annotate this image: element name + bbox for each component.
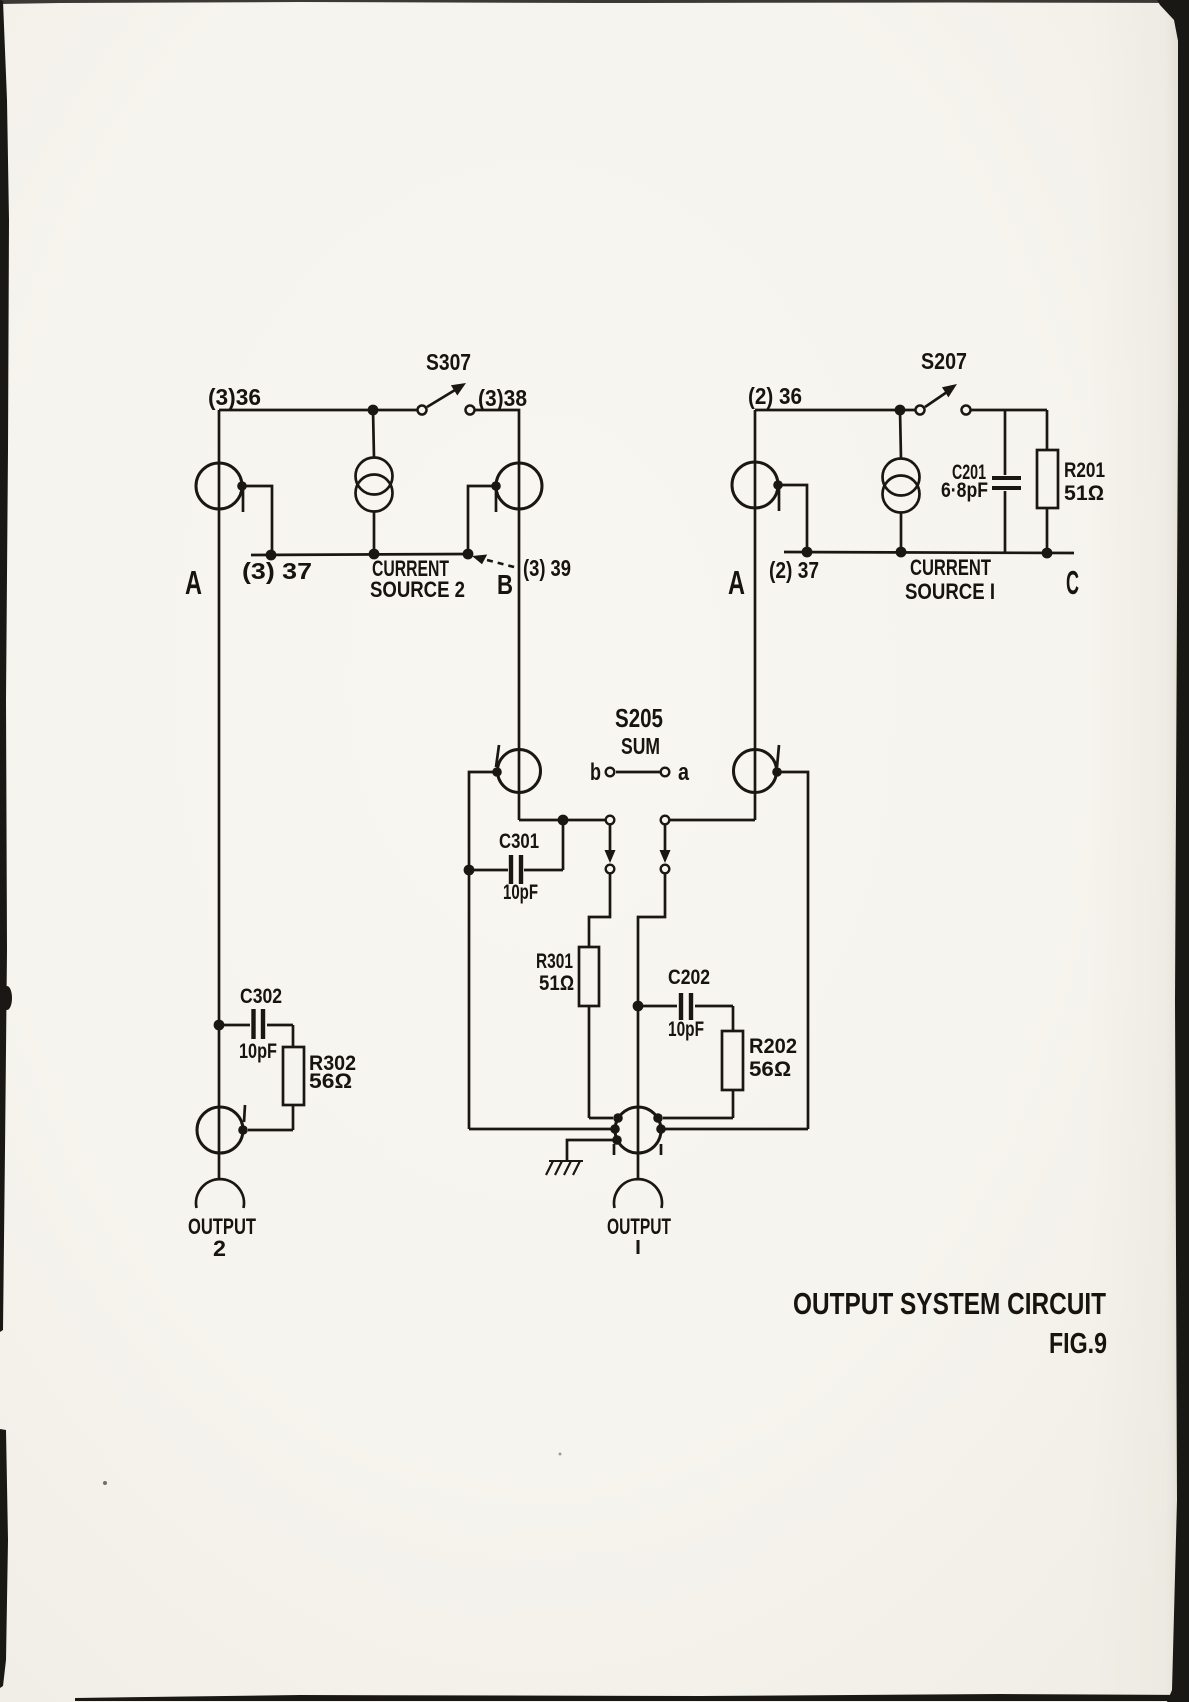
svg-text:(3)36: (3)36: [208, 384, 261, 410]
node contact dots output 1: [610, 1113, 666, 1145]
wire: top rail left section: [219, 409, 420, 412]
node junction dot on top rail left: [368, 405, 379, 416]
wire: lower rail left section: [251, 554, 468, 555]
current source 2 symbol: [356, 410, 393, 553]
wire: base of right transistor to lower rail: [468, 486, 496, 553]
wire: sum stage A emitter to switch contact a: [670, 819, 755, 822]
node junction dot current source 1 bottom: [896, 547, 907, 558]
svg-text:51Ω: 51Ω: [1064, 482, 1104, 505]
wire: net A right branch vertical: [754, 410, 757, 820]
svg-text:SOURCE I: SOURCE I: [905, 579, 995, 604]
svg-text:R202: R202: [749, 1035, 797, 1058]
transistor (output A, current source 2 side): [196, 463, 247, 512]
label numeral 1 bar: [637, 1240, 640, 1254]
resistor R202: [663, 1006, 743, 1118]
node junction dot (3)39 target: [463, 549, 474, 560]
svg-text:10pF: 10pF: [503, 881, 538, 904]
switch S207 left contact: [916, 406, 925, 415]
capacitor C202: [638, 993, 733, 1020]
svg-text:6·8pF: 6·8pF: [941, 479, 988, 502]
svg-text:OUTPUT: OUTPUT: [607, 1214, 671, 1239]
switch S205 pole a (right): [660, 816, 671, 874]
transistor (output 2 driver): [197, 1105, 248, 1153]
wire: top rail right section: [755, 409, 918, 412]
node junction dot (2)37: [802, 547, 813, 558]
svg-text:SUM: SUM: [621, 733, 660, 759]
current source 1 symbol: [883, 410, 920, 552]
svg-text:OUTPUT SYSTEM CIRCUIT: OUTPUT SYSTEM CIRCUIT: [793, 1286, 1106, 1321]
svg-text:R201: R201: [1064, 459, 1105, 482]
svg-text:56Ω: 56Ω: [309, 1070, 352, 1093]
svg-text:R301: R301: [536, 950, 573, 973]
svg-text:51Ω: 51Ω: [539, 972, 574, 995]
transistor (sum stage, A input): [734, 745, 782, 793]
resistor R201: [1037, 410, 1058, 552]
wire: right ground rail into output 1: [664, 1128, 808, 1131]
svg-text:56Ω: 56Ω: [749, 1058, 791, 1081]
svg-text:(2) 36: (2) 36: [748, 383, 802, 409]
wire: middle-left transistor emitter to switch contact b: [519, 819, 606, 822]
svg-text:C: C: [1066, 564, 1079, 601]
capacitor C302: [219, 1009, 293, 1039]
node junction dot C301 left: [464, 865, 475, 876]
wire: base of left transistor to lower rail: [242, 486, 272, 553]
wire: base to right vertical: [777, 772, 808, 1129]
switch S207 arm with arrowhead: [925, 384, 957, 407]
node junction dot C202 tap: [633, 1001, 644, 1012]
svg-text:(3)38: (3)38: [478, 385, 527, 411]
svg-text:B: B: [497, 569, 513, 600]
svg-text:C302: C302: [240, 985, 282, 1008]
svg-text:C202: C202: [668, 966, 710, 989]
ground: [546, 1161, 583, 1175]
svg-text:A: A: [728, 564, 745, 601]
wire: net A left branch vertical (top rail to output 2): [218, 410, 221, 1179]
svg-text:S307: S307: [426, 349, 471, 375]
node junction dot C301 tap: [558, 815, 569, 826]
svg-text:FIG.9: FIG.9: [1049, 1328, 1107, 1360]
resistor R301: [579, 947, 613, 1118]
switch S307 left contact: [418, 406, 427, 415]
node junction dot (3)37: [266, 550, 277, 561]
wire: base to lower rail right: [778, 485, 807, 552]
arrow (3)39 dashed pointer: [472, 555, 518, 569]
connector OUTPUT 1 shield pins: [613, 1144, 616, 1155]
paper shading near right edge: [1090, 0, 1178, 1702]
svg-text:10pF: 10pF: [668, 1018, 704, 1041]
node junction dot current source 2 bottom: [369, 549, 380, 560]
svg-text:C301: C301: [499, 830, 539, 853]
switch S207 right contact: [962, 406, 971, 415]
transistor (sum stage, B input): [492, 745, 540, 793]
wire: contact to B branch corner: [474, 410, 519, 820]
svg-text:SOURCE 2: SOURCE 2: [370, 577, 465, 602]
node junction dot R201 bottom / C: [1042, 548, 1053, 559]
svg-text:S205: S205: [615, 703, 663, 733]
wire: base to left vertical: [469, 772, 497, 1129]
connector OUTPUT 2 shell arc: [196, 1179, 244, 1208]
capacitor C201: [992, 410, 1021, 552]
wire: contact a down to output 1 pin: [638, 874, 665, 1178]
wire: contact to R201 corner: [970, 409, 1047, 412]
wire: lower rail right section: [784, 552, 1074, 553]
wire: contact b to R301: [589, 874, 610, 947]
svg-text:S207: S207: [921, 348, 967, 374]
svg-text:10pF: 10pF: [239, 1040, 277, 1063]
switch S307 right contact: [466, 406, 475, 415]
capacitor C301: [469, 820, 563, 884]
transistor (output A, current source 1 side): [732, 462, 783, 511]
svg-text:2: 2: [213, 1236, 226, 1261]
svg-text:(3) 39: (3) 39: [523, 555, 571, 581]
switch S307 arm with arrowhead: [427, 383, 466, 407]
wire: output 1 shield to ground: [567, 1140, 614, 1161]
connector OUTPUT 1 shell arc: [614, 1179, 662, 1208]
svg-text:(2) 37: (2) 37: [769, 557, 819, 583]
switch S205 pole b (left): [605, 816, 616, 874]
svg-text:A: A: [185, 564, 202, 601]
svg-text:b: b: [590, 759, 601, 786]
svg-text:CURRENT: CURRENT: [910, 555, 991, 580]
transistor (output B, current source 2 side): [491, 463, 542, 512]
svg-text:(3) 37: (3) 37: [242, 558, 312, 584]
resistor R302: [248, 1025, 304, 1130]
node junction dot C302 tap: [214, 1020, 225, 1031]
node junction dot top rail right: [895, 405, 906, 416]
switch S205 link b-a: [606, 768, 670, 777]
wire: left ground rail into output 1: [469, 1128, 612, 1131]
svg-text:a: a: [678, 759, 690, 786]
connector OUTPUT 1 socket circle: [615, 1107, 661, 1153]
